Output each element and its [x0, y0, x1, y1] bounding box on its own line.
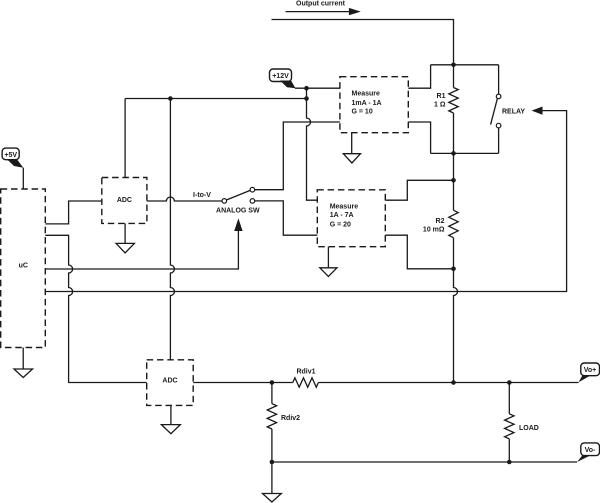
wire +12V to measure1: [295, 87, 340, 89]
wire R1 top bar: [431, 64, 499, 66]
node junction rdiv2 bottom: [270, 460, 275, 465]
ground uC: [14, 348, 33, 378]
svg-text:1A - 7A: 1A - 7A: [330, 212, 354, 219]
relay arm: [491, 98, 498, 124]
wire main vertical below R1: [453, 113, 455, 180]
svg-text:Rdiv1: Rdiv1: [296, 368, 315, 375]
svg-text:+5V: +5V: [4, 152, 17, 159]
callout Vo-: [577, 443, 600, 462]
wire measure1 right-bottom branch: [408, 122, 430, 153]
resistor R2: [449, 210, 458, 237]
svg-text:Output current: Output current: [296, 1, 346, 8]
dashed box measure1: [340, 77, 408, 133]
switch upper contact: [250, 187, 255, 192]
ground ADC1: [116, 223, 134, 253]
wire adc2 right to rdiv junction: [193, 382, 293, 384]
wire relay upper: [498, 65, 500, 94]
svg-text:LOAD: LOAD: [519, 425, 539, 432]
arrow analog sw control: [234, 218, 242, 231]
svg-text:RELAY: RELAY: [502, 109, 525, 116]
node +12V junction lower: [304, 96, 309, 101]
ground measure2: [320, 247, 337, 277]
svg-text:uC: uC: [19, 263, 28, 270]
dashed box measure2: [317, 190, 385, 247]
wire relay lower: [498, 128, 500, 153]
svg-text:Rdiv2: Rdiv2: [281, 415, 300, 422]
switch lower contact: [250, 199, 255, 204]
node junction load top: [507, 380, 512, 385]
svg-text:1mA - 1A: 1mA - 1A: [352, 100, 382, 107]
svg-text:+12V: +12V: [272, 73, 289, 80]
callout +12V: [270, 69, 296, 88]
svg-text:1 Ω: 1 Ω: [434, 102, 446, 109]
node junction rdiv: [270, 380, 275, 385]
wire measure1 right-top branch: [408, 65, 430, 88]
svg-text:R1: R1: [437, 93, 446, 100]
wire main vertical below R2: [453, 238, 455, 269]
node junction R2 top: [451, 178, 456, 183]
wire uC to adc2 with hops: [45, 235, 146, 382]
wire +12V down to measure2 with hop: [307, 88, 318, 200]
node junction load bottom: [507, 460, 512, 465]
svg-text:ANALOG SW: ANALOG SW: [216, 208, 260, 215]
callout Vo+: [579, 363, 600, 382]
node junction top of R1: [451, 63, 456, 68]
wire uC to analog sw arrow: [45, 230, 238, 269]
wire bottom row to Vo-: [272, 461, 577, 463]
ground rdiv2: [263, 462, 282, 502]
wire switch lower to measure2: [255, 201, 318, 235]
dashed box ADC1: [102, 178, 147, 224]
svg-text:Vo-: Vo-: [585, 447, 596, 454]
svg-text:Measure: Measure: [330, 203, 359, 210]
arrow output current: [286, 8, 361, 15]
wire ADC1 top to rail: [124, 99, 126, 178]
wire relay control feedback: [458, 111, 567, 292]
resistor R1: [449, 88, 458, 114]
ground measure1: [343, 133, 360, 163]
svg-text:G = 20: G = 20: [330, 222, 351, 229]
wire load upper: [508, 383, 510, 414]
node junction bottom of R1: [451, 151, 456, 156]
svg-text:R2: R2: [436, 218, 445, 225]
resistor Rdiv1: [293, 378, 319, 387]
wire rdiv2 lower: [271, 429, 273, 462]
switch arm: [226, 190, 250, 200]
wire adc2 column with hops: [170, 99, 174, 360]
wire uC relay feedback row: [45, 291, 457, 293]
svg-text:10 mΩ: 10 mΩ: [423, 227, 445, 234]
wire measure2 right-top to main: [385, 180, 453, 200]
node +12V junction upper: [304, 86, 309, 91]
wire switch upper to measure1: [255, 122, 340, 190]
wire +12V rail left: [125, 98, 306, 100]
wire R1 bottom bar: [431, 152, 499, 154]
svg-text:Vo+: Vo+: [584, 367, 597, 374]
svg-text:ADC: ADC: [162, 378, 177, 385]
arrow relay control: [532, 107, 543, 115]
callout +5V: [2, 148, 23, 189]
switch pole contact: [222, 199, 227, 204]
wire rdiv1 to Vo+: [318, 382, 578, 384]
dashed box uC: [1, 189, 46, 348]
node junction rail adc2 branch: [168, 96, 173, 101]
node junction main bottom: [451, 380, 456, 385]
svg-text:G = 10: G = 10: [352, 109, 373, 116]
dashed box ADC2: [147, 360, 194, 406]
wire rdiv2 upper: [271, 383, 273, 404]
wire main vertical to bottom with hop: [454, 269, 458, 383]
wire output current top line: [272, 20, 454, 65]
wire main vertical above R1: [453, 65, 455, 88]
svg-text:I-to-V: I-to-V: [193, 192, 211, 199]
svg-text:Measure: Measure: [352, 91, 381, 98]
ground ADC2: [161, 405, 180, 433]
wire I-to-V with hop over adc2 column: [147, 197, 222, 201]
wire measure2 right-bottom to main: [385, 235, 453, 269]
resistor LOAD: [505, 414, 514, 439]
resistor Rdiv2: [267, 404, 276, 429]
relay bottom contact: [496, 123, 501, 128]
node junction main lower: [451, 267, 456, 272]
wire uC to adc1: [45, 201, 102, 224]
wire main vertical above R2: [453, 180, 455, 210]
relay top contact: [496, 94, 501, 99]
wire load lower: [508, 439, 510, 462]
svg-text:ADC: ADC: [117, 197, 132, 204]
